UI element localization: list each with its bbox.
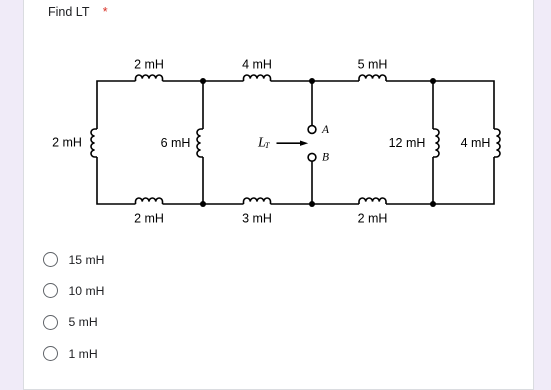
option 3: 5 mH (43, 314, 98, 329)
arrowhead of LT (300, 141, 308, 146)
node dot bottom-4 (430, 201, 436, 207)
svg-text:2 mH: 2 mH (134, 212, 164, 226)
option 2: 10 mH (43, 283, 105, 298)
node dot top-2 (200, 78, 206, 84)
option 1: 15 mH (43, 252, 105, 267)
option 4: 1 mH (43, 346, 98, 361)
wire mid branch lower (202, 157, 204, 204)
svg-text:12 mH: 12 mH (389, 136, 426, 150)
wire bottom-left corner (97, 157, 136, 204)
wire mid branch upper (202, 81, 204, 129)
inductor L3 5mH (top right) (359, 75, 386, 81)
inductor L4 2mH (left branch) (91, 129, 97, 157)
wire terminal branch upper (311, 81, 313, 126)
wire right branch lower (386, 157, 494, 204)
wire node B2 to L8 (163, 203, 244, 205)
question title (48, 5, 108, 19)
svg-text:4 mH: 4 mH (461, 136, 491, 150)
wire terminal branch lower (311, 161, 313, 204)
terminal B circle (308, 153, 316, 161)
wire node B3 to L9 (271, 203, 313, 205)
svg-text:T: T (265, 140, 271, 150)
wire col4 branch upper (432, 81, 434, 129)
svg-text:2 mH: 2 mH (358, 212, 388, 226)
inductor L7 4mH (right branch) (494, 129, 500, 157)
arrow of LT (277, 142, 302, 144)
svg-text:B: B (322, 151, 329, 163)
svg-text:6 mH: 6 mH (161, 136, 191, 150)
wire L2 to node T3 (271, 80, 360, 82)
svg-text:3 mH: 3 mH (242, 212, 272, 226)
wire col4 branch lower (432, 157, 434, 204)
svg-text:4 mH: 4 mH (242, 58, 272, 72)
inductor L2 4mH (top middle) (244, 75, 271, 81)
svg-text:A: A (321, 124, 330, 136)
svg-text:2 mH: 2 mH (134, 58, 164, 72)
wire L1 to node T2 (163, 80, 244, 82)
node dot top-4 (430, 78, 436, 84)
node dot bottom-3 (309, 201, 315, 207)
wire L3 to top-right corner (386, 81, 494, 129)
svg-text:5 mH: 5 mH (358, 58, 388, 72)
svg-text:2 mH: 2 mH (52, 136, 82, 150)
inductor L6 12mH (col4 branch) (433, 129, 439, 157)
inductor L10 2mH (bottom right) (359, 198, 386, 204)
node dot bottom-2 (200, 201, 206, 207)
inductor L8 2mH (bottom left) (136, 198, 163, 204)
wire node B3 to L10 (312, 203, 359, 205)
node dot top-3 (309, 78, 315, 84)
inductor L9 3mH (bottom middle) (244, 198, 271, 204)
inductor L1 2mH (top left) (136, 75, 163, 81)
terminal A circle (308, 126, 316, 134)
wire top-left corner to L1 (97, 81, 136, 129)
inductor L5 6mH (middle branch) (197, 129, 203, 157)
